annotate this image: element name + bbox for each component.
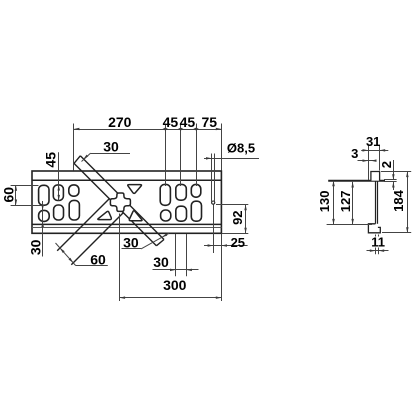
- dim line 30 slot width: [153, 269, 199, 271]
- dim ext 184 bottom: [382, 232, 411, 234]
- svg-text:45: 45: [180, 114, 196, 130]
- arrow 30 slot left: [170, 269, 176, 272]
- triangular cutout bottom right: [129, 211, 142, 221]
- side view top hem: [371, 172, 380, 181]
- svg-text:60: 60: [0, 187, 16, 203]
- arrow 45 slot bottom: [58, 195, 61, 201]
- dim tail 60 brace: [76, 265, 108, 267]
- dim ext bottom edge right: [221, 233, 248, 235]
- arrow left end: [74, 128, 80, 130]
- dim line 25: [204, 245, 248, 247]
- slot L5 square: [69, 185, 79, 196]
- slot R1 tall: [160, 184, 170, 205]
- arrow 2 down: [392, 174, 395, 180]
- slot L3 medium: [53, 185, 63, 201]
- side view web inner: [377, 182, 379, 224]
- arrow 45 slot top: [58, 185, 61, 191]
- bottom lip line: [32, 227, 221, 229]
- top dimension line: [74, 129, 222, 131]
- brace strap A upper edge: [80, 156, 164, 240]
- dim line 92: [245, 205, 247, 234]
- brace strap A lower edge: [74, 163, 156, 245]
- svg-text:30: 30: [28, 239, 44, 255]
- svg-text:270: 270: [108, 114, 132, 130]
- leader 30 lower diagonal: [141, 233, 169, 249]
- side view flange line: [328, 180, 385, 182]
- brace strap A top end cut: [74, 156, 80, 164]
- dim ext slot left: [175, 234, 177, 276]
- svg-text:11: 11: [371, 234, 385, 249]
- dim line 130: [333, 181, 335, 225]
- dim extension col A: [165, 124, 167, 187]
- svg-text:2: 2: [379, 161, 394, 168]
- slot L4 medium: [54, 205, 64, 220]
- arrow 300 right: [216, 296, 222, 299]
- dim line 3: [358, 160, 377, 162]
- slot R2 square: [161, 210, 171, 221]
- dim line 300: [120, 297, 222, 299]
- arrow 184 top: [406, 172, 409, 178]
- arrow 30 slot right: [186, 269, 192, 272]
- top fold line: [32, 179, 221, 181]
- arrow 3 left: [363, 159, 369, 162]
- arrow 127 top: [351, 182, 354, 188]
- side view foot: [368, 224, 380, 233]
- dim line 60 brace: [56, 243, 76, 266]
- svg-text:127: 127: [338, 191, 353, 213]
- leader 30 lower arrow: [162, 234, 168, 238]
- svg-text:300: 300: [163, 277, 187, 293]
- slot L2 square: [39, 210, 50, 221]
- arrow 11 right: [379, 249, 385, 252]
- dim line 11: [367, 250, 389, 252]
- svg-text:130: 130: [317, 191, 332, 213]
- slot R4 medium: [176, 206, 187, 221]
- tick col A: [163, 128, 169, 131]
- svg-text:45: 45: [163, 114, 179, 130]
- dim line 2 upper: [393, 160, 395, 180]
- arrow 31 left: [363, 149, 369, 152]
- center gusset pad: [110, 193, 130, 211]
- svg-text:30: 30: [153, 254, 169, 270]
- dim extension col C: [196, 124, 198, 187]
- arrow 3 right: [371, 159, 377, 162]
- arrow 127 bottom: [351, 219, 354, 225]
- arrow 25 left: [208, 244, 214, 247]
- brace strap B lower edge: [71, 213, 123, 265]
- svg-text:75: 75: [202, 114, 218, 130]
- arrow 60 brace lower: [69, 258, 74, 263]
- dim ext 2 top: [384, 179, 397, 181]
- arrow 11 left: [370, 249, 376, 252]
- arrow 60 brace upper: [60, 248, 65, 253]
- dim line 45 slot: [58, 152, 60, 200]
- dim line 31: [361, 150, 388, 152]
- svg-text:25: 25: [231, 235, 245, 250]
- tick col C: [193, 128, 199, 131]
- arrow 31 right: [380, 149, 386, 152]
- triangular cutout bottom left: [98, 211, 112, 219]
- leader 30 horizontal: [91, 153, 130, 155]
- arrow right end: [216, 128, 222, 130]
- hole leader arrow: [206, 157, 212, 160]
- slot L1 tall: [39, 185, 49, 205]
- hole diameter extension lines: [211, 154, 213, 202]
- svg-text:3: 3: [351, 146, 358, 161]
- arrow 25 right: [221, 244, 227, 247]
- hole centerline extension: [213, 205, 215, 254]
- arrow 30 square bottom: [41, 221, 44, 227]
- svg-text:45: 45: [42, 152, 58, 168]
- dim ext 31 right: [379, 146, 381, 171]
- tray side rail front view outline: [32, 171, 221, 233]
- dim ext 184 top: [381, 171, 411, 173]
- brace strap B upper edge: [57, 199, 109, 251]
- dim ext 60 top: [11, 185, 39, 187]
- arrow 30 square top: [41, 205, 44, 211]
- hole leader line: [204, 158, 259, 160]
- arrow 60 bottom: [15, 200, 17, 206]
- dim ext hole center horizontal: [216, 204, 248, 206]
- dim ext slot right: [186, 234, 188, 276]
- leader 30 diagonal: [82, 153, 91, 161]
- arrow 92 bottom: [244, 228, 247, 234]
- slot R6 tall: [191, 201, 201, 221]
- arrow 300 left: [120, 296, 126, 299]
- arrow 130 top: [332, 181, 335, 187]
- arrow 2 up: [392, 182, 395, 188]
- arrow 60 top: [15, 185, 17, 191]
- svg-text:30: 30: [103, 138, 119, 154]
- hole 8.5mm: [212, 201, 215, 204]
- dim 270/45/45/75 extension line left: [73, 124, 75, 171]
- dim ext 130 bottom: [327, 224, 372, 226]
- slot R5 square: [191, 184, 201, 197]
- svg-text:92: 92: [230, 210, 245, 224]
- svg-text:Ø8,5: Ø8,5: [227, 141, 255, 156]
- side view web outer: [375, 182, 377, 224]
- arrow 130 bottom: [332, 219, 335, 225]
- dim ext 11 left: [375, 235, 377, 237]
- arrow 92 top: [244, 205, 247, 211]
- arrow 184 bottom: [406, 227, 409, 233]
- slot L6 tall: [69, 200, 79, 220]
- slot R3 medium: [176, 184, 187, 200]
- plate right edge extension down: [221, 234, 223, 301]
- dim ext 2 bottom: [384, 181, 397, 183]
- dim ext 60 bottom: [11, 205, 44, 207]
- svg-text:60: 60: [90, 251, 106, 267]
- dim ext 11 right: [378, 235, 380, 237]
- dim line 2 lower: [393, 182, 395, 190]
- svg-text:184: 184: [391, 189, 406, 211]
- tick col B: [178, 128, 184, 131]
- triangular cutout top: [128, 185, 142, 194]
- dim line 30 square: [42, 201, 44, 257]
- plate right edge extension up: [221, 124, 223, 171]
- dim ext 31 left: [368, 146, 370, 180]
- dim line 184: [407, 172, 409, 233]
- dim line 60: [15, 185, 17, 205]
- dim extension col B: [180, 124, 182, 187]
- brace strap A bottom end cut: [156, 240, 164, 246]
- dim ext 300 left: [119, 214, 121, 302]
- leader 30 lower underline: [122, 248, 142, 250]
- leader 30 arrow: [83, 155, 88, 160]
- svg-text:31: 31: [366, 134, 380, 149]
- bottom fold line: [32, 223, 221, 225]
- dim line 127: [352, 182, 354, 225]
